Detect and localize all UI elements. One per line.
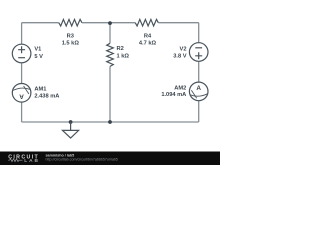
svg-text:R2: R2 — [117, 46, 124, 52]
ground — [63, 122, 79, 138]
svg-text:AM2: AM2 — [174, 86, 186, 92]
svg-text:R3: R3 — [67, 34, 74, 40]
svg-text:5 V: 5 V — [34, 54, 43, 60]
svg-text:3.8 V: 3.8 V — [173, 54, 186, 60]
ammeter AM1 (rotated 180) — [12, 84, 31, 103]
node junction dot ground — [69, 120, 73, 124]
wire left vertical (top to V1) — [21, 23, 23, 45]
resistor R2 — [107, 43, 114, 66]
svg-text:4.7 kΩ: 4.7 kΩ — [139, 41, 157, 47]
voltage source V1 — [12, 44, 31, 63]
wire top-middle segment — [82, 22, 135, 24]
svg-text:V2: V2 — [180, 47, 187, 53]
wire right vertical (V2 to AM2) — [198, 61, 200, 82]
node junction dot middle-top — [108, 21, 112, 25]
wire right vertical (top to V2) — [198, 23, 200, 43]
wire middle vertical (R2 to bottom) — [109, 66, 111, 122]
svg-text:R4: R4 — [144, 34, 152, 40]
resistor R3 — [59, 19, 82, 26]
svg-text:V1: V1 — [34, 47, 41, 53]
svg-text:http://circuitlab.com/circuit/: http://circuitlab.com/circuit/6m7a66b57u… — [46, 158, 118, 162]
wire bottom — [22, 121, 199, 123]
wire top-right segment — [158, 22, 198, 24]
footer bar — [0, 152, 220, 166]
ammeter AM2 — [189, 82, 208, 101]
svg-text:1 kΩ: 1 kΩ — [117, 53, 130, 59]
wire top-left segment — [22, 22, 59, 24]
wire left vertical (AM1 to bottom) — [21, 102, 23, 122]
wire right vertical (AM2 to bottom) — [198, 101, 200, 122]
svg-text:1.5 kΩ: 1.5 kΩ — [62, 41, 80, 47]
wire left vertical (V1 to AM1) — [21, 63, 23, 84]
svg-text:2.438 mA: 2.438 mA — [34, 93, 59, 99]
svg-text:1.094 mA: 1.094 mA — [161, 92, 186, 98]
node junction dot middle-bottom — [108, 120, 112, 124]
svg-text:AM1: AM1 — [34, 87, 46, 93]
svg-text:LAB: LAB — [24, 158, 40, 164]
footer logo zigzag — [8, 159, 22, 162]
resistor R4 — [135, 19, 158, 26]
voltage source V2 (flipped) — [189, 43, 208, 62]
wire middle vertical (top to R2) — [109, 23, 111, 44]
